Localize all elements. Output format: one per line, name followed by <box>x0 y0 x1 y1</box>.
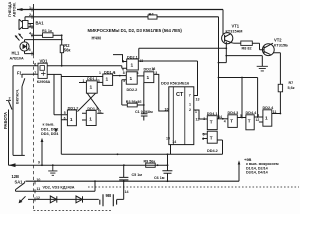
node 1 tick <box>31 8 33 12</box>
trigger DD4.1 <box>207 116 228 130</box>
wire R8 to VT2 base <box>252 43 264 50</box>
svg-text:К2908А: К2908А <box>37 80 51 84</box>
svg-text:6: 6 <box>64 116 66 120</box>
svg-text:DD1.2: DD1.2 <box>68 106 79 110</box>
connector dashed boundary <box>33 4 35 55</box>
svg-text:5: 5 <box>240 114 242 118</box>
svg-text:13: 13 <box>152 67 156 71</box>
svg-text:DD1, DD2: DD1, DD2 <box>41 127 58 131</box>
svg-text:14: 14 <box>172 140 176 144</box>
gate pin numbers <box>64 59 144 121</box>
resistor R4 <box>148 15 157 19</box>
svg-text:9В: 9В <box>106 193 112 198</box>
svg-text:к выв.: к выв. <box>43 123 55 127</box>
svg-text:5: 5 <box>64 111 66 115</box>
svg-text:6: 6 <box>34 62 36 66</box>
svg-text:R8 82: R8 82 <box>242 47 252 51</box>
svg-text:VT1: VT1 <box>232 24 240 29</box>
wire R1 to node <box>53 34 62 36</box>
gate DD1.4 <box>103 74 127 85</box>
wire counter out to DD4.1 <box>194 110 208 119</box>
wire left rail vertical <box>12 66 14 156</box>
svg-text:АВТОМ.: АВТОМ. <box>12 2 16 17</box>
wire left rail top <box>13 65 38 67</box>
transistor VT2 <box>262 43 274 55</box>
gate DD2.3 <box>144 71 169 111</box>
wire bus line2 y=15.5 <box>25 16 219 18</box>
latch cross coupling <box>77 93 99 111</box>
wire VT1 base drop <box>222 10 224 35</box>
svg-text:МИКРОСХЕМЫ D1, D2, D3 К561ЛЕ5: МИКРОСХЕМЫ D1, D2, D3 К561ЛЕ5 (564 ЛЕ5) <box>88 28 183 33</box>
wire pin note drop <box>41 141 43 165</box>
svg-text:12: 12 <box>196 118 200 122</box>
switch SA1 <box>16 181 25 191</box>
trigger DD4.4 <box>246 115 263 130</box>
svg-text:8: 8 <box>123 71 125 75</box>
svg-text:12В: 12В <box>12 174 20 179</box>
svg-text:к выв. микросхем: к выв. микросхем <box>246 162 279 166</box>
wire row 12 <box>28 198 99 200</box>
svg-text:ВКЛЮЧ.: ВКЛЮЧ. <box>16 89 20 104</box>
resistor R1 <box>43 33 54 38</box>
svg-text:DD1.3: DD1.3 <box>87 107 98 111</box>
resistor R2 <box>60 45 63 53</box>
svg-text:ГНЕЗДА: ГНЕЗДА <box>8 1 12 17</box>
svg-text:4: 4 <box>137 71 139 75</box>
svg-text:1: 1 <box>70 117 73 123</box>
resistor R8 <box>241 41 253 45</box>
arrow input mid <box>55 128 58 133</box>
svg-text:Т: Т <box>210 120 213 125</box>
ground under VT2 <box>257 66 268 71</box>
switch F2 <box>9 101 13 165</box>
svg-text:14: 14 <box>125 190 129 194</box>
svg-text:R1 1к: R1 1к <box>42 29 52 33</box>
svg-text:DD3 К561ИЕ16: DD3 К561ИЕ16 <box>161 81 190 86</box>
svg-text:12: 12 <box>256 118 260 122</box>
svg-text:DD1.1: DD1.1 <box>87 77 98 81</box>
svg-text:SА1: SА1 <box>15 179 24 184</box>
wire counter bottom pins <box>170 145 172 155</box>
svg-text:1: 1 <box>99 71 101 75</box>
wire clock into counter <box>194 61 198 96</box>
wire VT2 emitter / ground link <box>226 42 262 67</box>
svg-text:1: 1 <box>83 79 85 83</box>
svg-text:1: 1 <box>29 6 31 10</box>
svg-text:DD4.1: DD4.1 <box>207 112 218 116</box>
svg-text:КТ315Б: КТ315Б <box>274 43 288 47</box>
svg-text:5,6к: 5,6к <box>288 86 295 90</box>
svg-text:1: 1 <box>89 117 92 123</box>
gate DD2.2 <box>122 72 144 105</box>
wire VD1 to latch input <box>54 74 67 114</box>
svg-text:15: 15 <box>166 137 170 141</box>
svg-text:2: 2 <box>189 108 191 112</box>
svg-text:11: 11 <box>98 110 102 114</box>
svg-text:F1: F1 <box>17 71 23 76</box>
svg-text:2: 2 <box>29 13 31 17</box>
capacitor C1 <box>141 114 148 121</box>
svg-text:РАБОТА: РАБОТА <box>3 112 8 129</box>
pin ticks bottom <box>34 180 36 201</box>
svg-text:НЧМ: НЧМ <box>92 35 102 40</box>
svg-text:1: 1 <box>131 63 134 69</box>
svg-text:9: 9 <box>38 161 40 165</box>
wire R3 loop <box>122 104 144 106</box>
svg-text:1: 1 <box>265 116 268 122</box>
svg-text:6: 6 <box>202 137 204 141</box>
svg-text:С1 0,068м: С1 0,068м <box>135 110 153 114</box>
svg-text:HL1: HL1 <box>12 51 20 56</box>
svg-text:VT2: VT2 <box>274 38 282 43</box>
svg-text:3б: 3б <box>137 100 142 104</box>
gate DD2.4 <box>259 110 281 126</box>
svg-text:7: 7 <box>189 94 191 98</box>
svg-text:DD4.4: DD4.4 <box>246 111 258 115</box>
svg-text:DD4.3: DD4.3 <box>228 111 239 115</box>
wire to DD1.4 inputs <box>61 74 103 76</box>
wire LED top line <box>25 39 62 41</box>
gate DD2.1 <box>113 48 226 70</box>
counter DD3 <box>169 87 194 145</box>
speaker BA1 <box>19 17 34 30</box>
svg-text:1: 1 <box>147 75 150 81</box>
svg-text:12: 12 <box>36 196 40 200</box>
svg-text:DD4.2: DD4.2 <box>207 149 218 153</box>
wire pin4 to R1 <box>31 34 43 36</box>
resistor R9 <box>146 163 156 167</box>
arrow bottom left <box>20 196 26 202</box>
svg-text:4: 4 <box>224 120 226 124</box>
node 3 tick <box>31 25 33 29</box>
svg-text:1: 1 <box>189 103 191 107</box>
svg-text:14: 14 <box>218 115 222 119</box>
svg-text:R4: R4 <box>149 12 155 17</box>
svg-text:3: 3 <box>29 23 31 27</box>
gate DD1.1 <box>79 81 103 93</box>
wire R7 to DD2.4 out <box>279 92 281 114</box>
wire latch lower input <box>61 77 67 155</box>
svg-text:13: 13 <box>139 59 143 63</box>
svg-text:VD1: VD1 <box>40 58 49 63</box>
svg-text:13: 13 <box>196 98 200 102</box>
svg-text:Т: Т <box>230 119 233 124</box>
svg-text:10: 10 <box>165 108 169 112</box>
trigger DD4.2 <box>202 131 222 154</box>
capacitor C6 <box>162 165 172 181</box>
wire F1 down <box>21 87 23 156</box>
wire row 11 <box>16 181 96 191</box>
wire F1 branch <box>22 74 38 78</box>
diode VD3 <box>76 196 83 203</box>
wire VT1 to R8 <box>234 42 241 44</box>
svg-text:СТ: СТ <box>176 92 184 98</box>
svg-text:DD2.2: DD2.2 <box>127 88 138 92</box>
node 5 tick <box>31 52 33 56</box>
svg-text:DD3, DD4: DD3, DD4 <box>41 132 59 136</box>
svg-text:АЛ310А: АЛ310А <box>10 56 24 60</box>
svg-text:ВА1: ВА1 <box>36 21 45 26</box>
svg-text:3: 3 <box>114 71 116 75</box>
trigger DD4.3 <box>228 115 246 128</box>
svg-text:R3 56к: R3 56к <box>126 100 138 104</box>
svg-text:R9 56к: R9 56к <box>144 160 156 164</box>
wire VD1 out to gates <box>47 66 127 68</box>
svg-text:56к: 56к <box>64 47 72 52</box>
wire mid bottom bus <box>61 153 222 155</box>
svg-text:11: 11 <box>37 187 41 191</box>
battery GB1 <box>100 194 117 206</box>
svg-text:9: 9 <box>257 114 259 118</box>
svg-text:1: 1 <box>106 77 109 83</box>
svg-text:2: 2 <box>9 97 11 101</box>
wire VD1 pin1 <box>47 73 61 75</box>
node 2 tick <box>31 15 33 19</box>
resistor R3 <box>127 103 137 107</box>
wire y62 link <box>219 56 227 63</box>
wire top feed to DD4 row <box>219 17 258 119</box>
node 4 tick <box>31 33 33 37</box>
diode VD2 <box>50 196 57 203</box>
fuse switch F1 <box>22 78 25 86</box>
svg-text:1: 1 <box>90 85 93 91</box>
svg-text:3: 3 <box>98 79 100 83</box>
svg-text:Т: Т <box>248 119 251 124</box>
svg-text:1: 1 <box>195 110 197 114</box>
gate DD1.3 <box>82 110 104 125</box>
svg-text:D3/14, D4/14: D3/14, D4/14 <box>246 170 269 174</box>
wire counter gnd drop <box>167 154 169 165</box>
wire VT2 collector down <box>273 53 280 85</box>
ground mid left <box>48 165 57 175</box>
gate 1 symbols <box>70 63 268 123</box>
svg-text:3: 3 <box>203 117 205 121</box>
svg-text:5: 5 <box>29 48 31 52</box>
svg-text:10: 10 <box>36 178 40 182</box>
svg-text:С6 1м: С6 1м <box>154 176 165 180</box>
svg-text:КТ315АМ: КТ315АМ <box>226 30 243 34</box>
svg-text:5: 5 <box>123 79 125 83</box>
optocoupler VD1 <box>38 63 47 78</box>
wire bottom bus <box>26 180 240 182</box>
wire zero rail with arrow <box>9 164 168 166</box>
svg-text:7: 7 <box>34 71 36 75</box>
svg-text:11: 11 <box>273 110 277 114</box>
svg-text:С5 1м: С5 1м <box>132 173 143 177</box>
wire bus line1 y=9.5 <box>17 9 223 11</box>
svg-text:R7: R7 <box>289 81 294 85</box>
dotted enclosure bottom <box>34 210 112 212</box>
svg-text:Т: Т <box>210 136 213 141</box>
gate DD1.2 <box>67 110 76 126</box>
svg-text:1: 1 <box>130 76 133 82</box>
resistor R7 <box>278 84 282 92</box>
svg-text:2: 2 <box>122 60 124 64</box>
capacitor C5 <box>119 165 128 181</box>
transistor VT1 <box>222 33 234 44</box>
svg-text:VD2, VD3 КД243А: VD2, VD3 КД243А <box>43 186 75 190</box>
LED HL1 <box>15 34 34 54</box>
svg-text:DD2.1: DD2.1 <box>127 55 138 59</box>
arrow left end line1 <box>17 8 23 11</box>
wire left bridge <box>13 154 25 156</box>
wire hook to supply note <box>238 164 240 182</box>
svg-text:3: 3 <box>155 71 157 75</box>
wire R2 vertical <box>61 35 63 66</box>
svg-text:5: 5 <box>203 132 205 136</box>
